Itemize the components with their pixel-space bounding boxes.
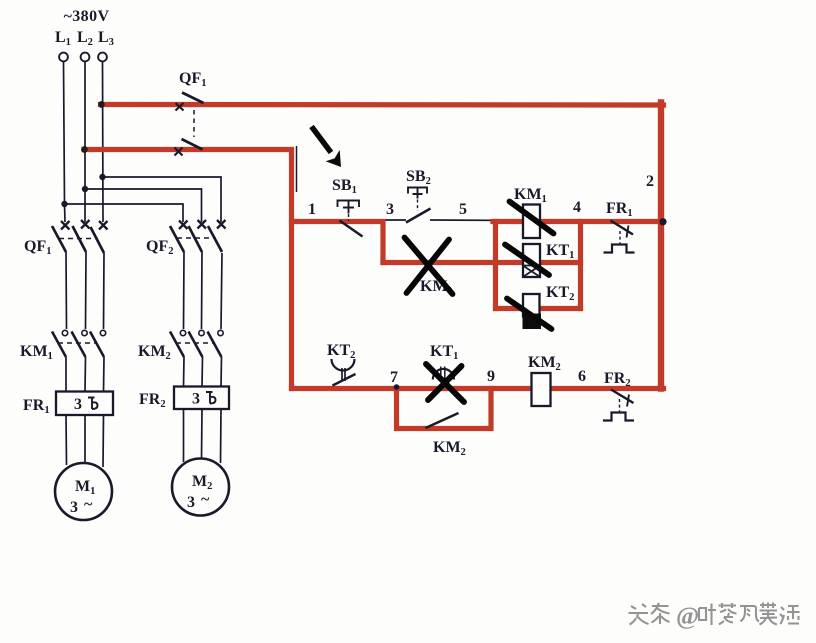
breaker QF2 pole3 blade [208,226,222,252]
node junction row1 right [659,218,666,225]
terminal L3 [98,53,107,62]
contact KM2 aux label [433,439,466,458]
pushbutton SB1 dashed stem [348,214,350,221]
coil KM2 [532,373,551,406]
label L2 [77,29,93,48]
breaker QF1 pole2 terminal x [81,220,90,229]
svg-text:QF1: QF1 [24,238,51,257]
contactor KM1 pole3 [90,330,106,357]
breaker QF1 pole1 terminal x [61,221,70,230]
wire red row1 right segment [493,219,663,224]
node 1 [308,201,316,218]
svg-text:3: 3 [74,396,82,413]
breaker QF2 pole1 blade [170,226,184,252]
cross-out X over KM1 aux [405,238,453,295]
wire branch node7 drop [396,389,398,429]
wire branch bottom rail [397,428,492,430]
svg-text:5: 5 [459,201,467,218]
wire coil box left vertical [495,221,497,309]
node 6 [578,368,586,385]
wire red coil box bottom rail [496,306,581,311]
relay FR1 tick [627,226,629,238]
contact KM2 aux blade [426,413,459,428]
contact KT1 delayed label [430,343,458,362]
svg-text:~: ~ [84,496,93,513]
wire row2 [293,388,660,390]
wire KM1 pole2 to FR1 [84,357,87,392]
node 4 [573,199,581,216]
wire FR1 to M1 c [102,415,105,467]
contactor KM2 pole1 [170,330,186,357]
wire QF2 pole3 to KM2 [221,253,222,329]
node L3 branch [99,174,105,180]
node L2 branch [82,186,88,192]
svg-text:SB1: SB1 [332,177,357,196]
wire KM1 pole3 to FR1 [103,357,106,392]
wire branch L3 to QF2 [103,177,222,222]
relay FR2 dashed stem [619,399,621,412]
label FR1 power [23,397,50,416]
relay FR1 label [606,200,633,219]
wire red second line and left vertical [84,150,292,389]
node 5 [459,201,467,218]
breaker QF1 pole2 blade [73,226,87,252]
relay FR2 label [604,370,631,389]
breaker QF1 control pole1 blade [182,93,204,104]
contactor KM2 dashed link [176,342,215,344]
contact KT1 delay dome [433,367,454,380]
label KM1 power [20,343,53,362]
thermal element FR2 box [174,387,229,410]
breaker QF2 dashed link [177,237,216,239]
breaker QF1 pole1 blade [52,226,66,252]
contactor KM2 pole2 [189,330,205,357]
svg-text:FR1: FR1 [606,200,633,219]
breaker QF1 control pole2 blade [182,139,203,150]
wire FR2 to M2 c [220,409,223,463]
node L3 tap top red line [98,101,105,108]
svg-text:QF2: QF2 [146,238,173,257]
wire QF1 pole3 to KM1 [103,253,106,329]
wire coil box right vertical [580,221,582,309]
pushbutton SB2 cap [408,188,427,199]
coil KT2 [523,294,542,329]
contact KT2 delay arc [332,359,355,371]
coil KT1 label [546,242,574,261]
glyph ye [699,604,716,626]
svg-text:~: ~ [201,491,210,508]
svg-text:KT2: KT2 [546,284,574,303]
pushbutton SB2 dashed stem [417,200,419,212]
relay FR1 dashed stem [619,231,621,244]
label L1 [55,29,71,48]
wire row1 SB1 to node3 [362,219,406,221]
terminal L1 [59,53,68,62]
svg-text:QF1: QF1 [179,70,206,89]
node 2 [646,173,654,190]
coil KT1 with timer box [523,244,540,277]
motor M1 [55,463,112,520]
svg-text:KM2: KM2 [138,343,171,362]
wire KM2 pole3 to FR2 [220,357,223,387]
contactor KM2 pole3 [208,330,224,357]
node L2 tap second red line [81,146,88,153]
relay FR2 heater [603,413,634,421]
pushbutton SB1 cap [338,201,360,214]
node dot L2 tap over red [81,146,87,152]
svg-text:KM2: KM2 [433,439,466,458]
svg-text:FR2: FR2 [604,370,631,389]
wire QF1 pole1 to KM1 [65,252,68,329]
cross-out slash over KT1 coil [505,245,549,276]
svg-text:KT2: KT2 [327,342,355,361]
watermark 头条 @叶落飞舞泣 [629,603,800,631]
wire branch L1 to QF2 [65,204,184,222]
label FR2 power [139,391,166,410]
svg-text:SB2: SB2 [406,168,431,187]
label QF1 power [24,238,51,257]
node 9 [487,368,495,385]
contact KT2 delayed label [327,342,355,361]
pushbutton SB1 blade [340,221,363,237]
svg-text:2: 2 [646,173,654,190]
wire branch L2 to QF2 [85,189,202,222]
wire red coil box left vertical [493,222,498,309]
cross-out X over KT1 contact [426,364,464,402]
svg-text:@: @ [676,603,699,630]
label QF1 control [179,70,206,89]
relay FR2 blade [611,390,634,404]
svg-text:FR1: FR1 [23,397,50,416]
breaker QF1 control pole1 terminal x [176,103,184,111]
breaker QF2 pole2 terminal x [198,220,207,229]
breaker QF2 pole1 terminal x [179,221,188,230]
wire row1 node1 to SB1 [291,220,340,222]
coil KM1 label [514,186,547,205]
wire second line black under red [85,149,291,151]
pushbutton SB2 blade [406,209,431,223]
wire red row1 left segment with jog down [292,222,384,263]
wire L3 vertical [102,62,105,223]
node dot L3 tap over red [98,101,104,107]
motor M2 [172,459,229,516]
wire KM2 pole2 to FR2 [201,357,204,387]
wire red top line and right vertical [101,102,664,108]
breaker QF2 pole3 terminal x [217,220,226,229]
wire QF1 pole2 to KM1 [85,252,88,329]
wire top line black under red [102,104,659,106]
thermal element FR1 box [56,392,113,416]
relay FR2 tick [627,395,629,407]
svg-text:7: 7 [390,369,398,386]
svg-text:6: 6 [578,368,586,385]
label L3 [98,29,114,48]
node L1 branch [61,201,67,207]
wire row1 SB2 to coil rail [430,219,659,222]
wire FR1 to M1 a [65,415,68,465]
breaker QF1 control pole2 terminal x [175,148,183,156]
cross-out slash over KT2 coil [507,299,552,330]
svg-text:KM2: KM2 [528,354,561,373]
contact KM1 aux label [420,278,453,297]
glyph tou [629,604,649,625]
wire node3 drop to aux branch [383,221,385,263]
wire L2 vertical [84,62,86,223]
svg-text:~380V: ~380V [64,8,110,25]
wire KM1 pole1 to FR1 [65,357,67,392]
wire red self-hold branch [397,389,492,429]
cross-out slash over KM1 coil [510,202,554,234]
svg-text:9: 9 [487,368,495,385]
node junction 7 [394,384,400,390]
wire FR1 to M1 b [84,415,86,463]
svg-text:KM1: KM1 [20,343,53,362]
node 7 [390,369,398,386]
coil KT2 label [546,284,574,303]
svg-text:3: 3 [187,494,195,511]
coil KM1 [523,205,540,239]
wire red coil box right vertical [578,222,583,309]
breaker QF1 pole3 terminal x [99,221,108,230]
wire QF2 pole2 to KM2 [201,252,204,329]
contactor KM1 pole1 [52,330,68,357]
svg-text:3: 3 [192,391,200,408]
svg-text:KT1: KT1 [430,343,458,362]
glyph luo [719,603,737,625]
wire left control vertical [292,150,294,389]
glyph qi [780,606,800,624]
pushbutton SB1 label [332,177,357,196]
breaker QF1 pole3 blade [91,227,105,253]
svg-text:KT1: KT1 [546,242,574,261]
svg-text:L3: L3 [98,29,114,48]
breaker QF1 dashed link [59,238,98,240]
svg-text:L1: L1 [55,29,71,48]
label KM2 power [138,343,171,362]
breaker QF1 control dashed link [193,110,195,137]
wire KM2 pole1 to FR2 [183,357,186,387]
svg-text:4: 4 [573,199,581,216]
terminal L2 [81,53,90,62]
wire QF2 pole1 to KM2 [183,252,186,329]
wire right control vertical [660,105,662,389]
contactor KM1 dashed link [58,342,97,344]
wire coil box bottom rail [496,308,581,310]
glyph tiao [651,603,670,624]
pushbutton SB2 label [406,168,431,187]
wire aux branch rail [384,262,581,264]
svg-text:L2: L2 [77,29,93,48]
wire black stub left vertical [296,146,298,192]
contact KT2 stem [342,368,345,381]
svg-text:3: 3 [386,201,394,218]
wire FR2 to M2 a [183,409,185,462]
svg-text:KM1: KM1 [514,186,547,205]
contact KT2 blade [333,374,356,386]
breaker QF2 pole2 blade [189,226,203,252]
wire red row2 [292,386,664,391]
coil KM2 label [528,354,561,373]
wire L1 vertical [64,62,66,223]
wire branch node9 rise [490,389,492,429]
label ~380V [64,8,110,25]
svg-text:FR2: FR2 [139,391,166,410]
wire red aux branch rail [383,260,581,265]
relay FR1 heater [604,245,635,253]
contactor KM1 pole2 [72,330,88,357]
glyph fei [740,606,759,622]
svg-text:3: 3 [70,499,78,516]
label QF2 power [146,238,173,257]
annotation arrow [312,127,332,153]
relay FR1 blade [611,221,634,235]
node 3 [386,201,394,218]
glyph wu [760,603,778,625]
wire FR2 to M2 b [201,409,204,459]
svg-text:1: 1 [308,201,316,218]
